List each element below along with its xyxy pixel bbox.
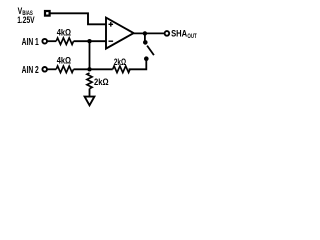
svg-text:4kΩ: 4kΩ — [57, 27, 72, 37]
switch S1 (open, SHA) — [143, 33, 154, 61]
resistor R1 4k (AIN1) — [56, 38, 73, 45]
label SHA OUT — [171, 28, 197, 40]
wire AIN2 terminal to R2 — [47, 68, 56, 70]
wire op-amp output to SHA terminal — [134, 32, 165, 34]
svg-text:AIN 2: AIN 2 — [22, 65, 40, 76]
wire AIN1 terminal to R1 — [47, 40, 56, 42]
resistor R4 2k (feedback) — [113, 66, 130, 73]
junction node B — [87, 67, 91, 71]
terminal VBIAS (square) — [45, 11, 50, 16]
wire R2 to node B and on to R4 — [74, 68, 113, 70]
wire R3 to ground — [89, 89, 91, 97]
label VBIAS 1.25V — [17, 6, 35, 26]
op-amp U1 — [106, 18, 134, 49]
terminal AIN1 (circle) — [42, 39, 47, 44]
terminal AIN2 (circle) — [42, 67, 47, 72]
svg-text:4kΩ: 4kΩ — [57, 55, 72, 65]
svg-text:2kΩ: 2kΩ — [114, 57, 126, 67]
wire R1 to op-amp - input — [74, 40, 113, 42]
svg-text:1.25V: 1.25V — [17, 15, 35, 26]
resistor R2 4k (AIN2) — [56, 66, 73, 73]
terminal SHA OUT (circle) — [165, 31, 170, 36]
svg-text:SHA: SHA — [171, 28, 187, 38]
ground — [85, 97, 95, 106]
svg-text:AIN 1: AIN 1 — [22, 37, 40, 48]
junction node A (summing) — [87, 39, 91, 43]
wire VBIAS to op-amp + input — [50, 13, 106, 24]
resistor R3 2k (to ground) — [87, 73, 92, 89]
svg-text:2kΩ: 2kΩ — [94, 77, 109, 87]
wire node A down to node B — [89, 41, 91, 69]
wire switch contact down to R4 — [129, 60, 147, 70]
junction output node — [143, 31, 147, 35]
svg-text:OUT: OUT — [187, 33, 196, 40]
